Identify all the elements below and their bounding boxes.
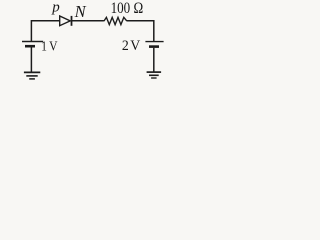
ground (left): [24, 71, 40, 73]
diode D1: [60, 16, 70, 26]
wire V2 to ground: [153, 48, 155, 72]
wire diode to resistor: [71, 20, 104, 22]
battery V1 bottom plate (negative, short thick): [25, 45, 35, 48]
resistor R1 100 ohm zigzag: [104, 17, 127, 24]
circuit schematic: diode with 100 ohm resistor between 1 V and 2 V sources: [0, 0, 238, 83]
battery V1 top plate (positive, long): [22, 41, 43, 43]
wire V1 to ground: [30, 47, 32, 72]
battery V2 bottom plate (negative, short thick): [149, 45, 159, 48]
wire top-left segment (corner to diode anode): [31, 21, 59, 41]
svg-text:V: V: [130, 38, 140, 54]
svg-text:p: p: [51, 0, 60, 16]
svg-text:N: N: [74, 2, 88, 21]
diode cathode bar: [71, 16, 73, 26]
svg-text:100 Ω: 100 Ω: [111, 0, 144, 17]
ground (right): [147, 71, 162, 73]
svg-text:2: 2: [122, 38, 129, 54]
battery V2 top plate (positive, long): [145, 41, 163, 43]
svg-text:1: 1: [41, 39, 47, 54]
wire resistor to top-right corner and down: [127, 21, 154, 42]
svg-text:V: V: [49, 39, 57, 54]
